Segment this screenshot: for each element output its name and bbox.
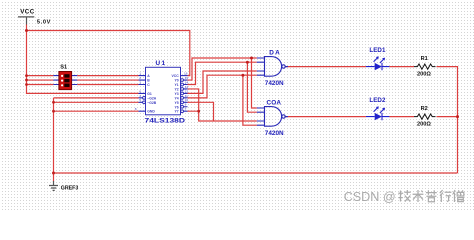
svg-text:16: 16 xyxy=(184,72,188,76)
svg-text:7420N: 7420N xyxy=(265,80,284,87)
svg-text:Y6: Y6 xyxy=(175,105,179,109)
svg-text:R1: R1 xyxy=(421,56,428,62)
svg-text:2: 2 xyxy=(139,76,141,80)
svg-text:VCC: VCC xyxy=(20,9,35,16)
svg-text:7420N: 7420N xyxy=(265,130,284,137)
svg-text:9: 9 xyxy=(185,103,187,107)
svg-text:5.0V: 5.0V xyxy=(37,20,51,26)
svg-text:10: 10 xyxy=(185,98,189,102)
svg-text:6: 6 xyxy=(139,89,141,93)
svg-text:200Ω: 200Ω xyxy=(417,122,431,128)
svg-text:14: 14 xyxy=(185,80,189,84)
svg-text:~G2A: ~G2A xyxy=(147,96,157,100)
svg-text:15: 15 xyxy=(185,76,189,80)
svg-text:Y7: Y7 xyxy=(175,110,179,114)
svg-text:12: 12 xyxy=(185,89,189,93)
svg-text:GND: GND xyxy=(147,110,155,114)
svg-text:G1: G1 xyxy=(147,92,152,96)
svg-text:11: 11 xyxy=(185,94,188,98)
svg-text:Y3: Y3 xyxy=(175,92,179,96)
svg-text:5: 5 xyxy=(139,98,141,102)
svg-text:LED2: LED2 xyxy=(369,97,386,104)
svg-text:Y2: Y2 xyxy=(175,87,179,91)
svg-text:R2: R2 xyxy=(421,106,428,112)
svg-text:200Ω: 200Ω xyxy=(417,72,431,78)
svg-text:S1: S1 xyxy=(60,64,67,70)
svg-text:4: 4 xyxy=(139,94,141,98)
svg-text:1: 1 xyxy=(139,72,141,76)
svg-text:Y1: Y1 xyxy=(175,83,179,87)
svg-text:~G2B: ~G2B xyxy=(147,101,157,105)
svg-text:8: 8 xyxy=(135,107,137,111)
svg-text:74LS138D: 74LS138D xyxy=(145,118,186,125)
svg-text:7: 7 xyxy=(185,107,187,111)
svg-text:GREF3: GREF3 xyxy=(61,186,79,192)
svg-text:VCC: VCC xyxy=(172,74,180,78)
svg-text:DA: DA xyxy=(269,49,280,56)
svg-text:Y4: Y4 xyxy=(175,96,179,100)
svg-text:13: 13 xyxy=(185,85,189,89)
svg-text:Y5: Y5 xyxy=(175,101,179,105)
svg-text:CSDN @: CSDN @ xyxy=(344,190,396,204)
svg-text:Y0: Y0 xyxy=(175,79,179,83)
svg-text:LED1: LED1 xyxy=(369,47,386,54)
svg-text:U1: U1 xyxy=(156,60,166,67)
svg-text:COA: COA xyxy=(267,99,282,106)
svg-text:3: 3 xyxy=(139,80,141,84)
